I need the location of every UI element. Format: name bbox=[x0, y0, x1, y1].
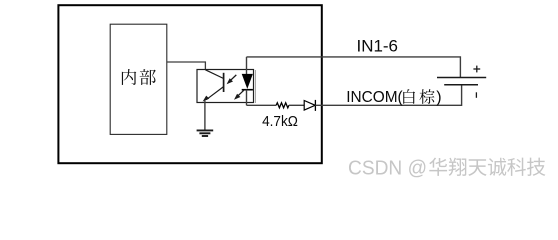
internal block box (内部) bbox=[110, 24, 167, 134]
battery + sign bbox=[473, 66, 480, 73]
resistor R 4.7kΩ bbox=[276, 103, 289, 108]
battery BT1: bottom (-) plate bbox=[444, 84, 478, 86]
wire: LED cathode to resistor R bbox=[247, 104, 277, 106]
LED of U1: anode wire from IN1-6 line bbox=[246, 57, 248, 74]
phototransistor of U1: emitter lead with arrow bbox=[203, 87, 224, 102]
watermark CSDN @华翔天诚科技 bbox=[348, 157, 545, 179]
ground bbox=[197, 130, 214, 136]
LED of U1: triangle (pointing down) bbox=[242, 74, 253, 89]
phototransistor of U1: collector lead bbox=[205, 70, 223, 79]
wire INCOM: diode to battery - bbox=[315, 85, 461, 105]
wire: emitter to ground bbox=[204, 101, 206, 131]
outer enclosure box bbox=[58, 5, 321, 163]
phototransistor of U1: base bar bbox=[223, 73, 225, 92]
battery - mark bbox=[475, 92, 477, 98]
optocoupler U1 body box bbox=[197, 70, 254, 103]
svg-text:IN1-6: IN1-6 bbox=[357, 37, 399, 55]
wire: internal box to optocoupler collector bbox=[167, 62, 205, 70]
battery BT1: top (+) plate bbox=[437, 77, 486, 79]
svg-text:INCOM(: INCOM( bbox=[346, 89, 403, 106]
LED of U1: cathode wire down to INCOM line bbox=[246, 90, 248, 106]
label 内部 (internal) bbox=[122, 69, 156, 85]
svg-text:CSDN @: CSDN @ bbox=[348, 157, 427, 179]
wire: resistor to diode bbox=[289, 104, 304, 106]
light arrow 2 (LED to transistor) bbox=[234, 90, 244, 99]
label INCOM(白棕) bbox=[346, 89, 441, 106]
light arrow 1 (LED to transistor) bbox=[227, 75, 237, 84]
svg-text:4.7kΩ: 4.7kΩ bbox=[262, 114, 298, 130]
diode D bbox=[304, 100, 315, 111]
wire IN1-6: LED anode to battery + bbox=[247, 57, 461, 77]
optocoupler U1 right edge shadow line bbox=[254, 70, 256, 103]
LED of U1: cathode bar bbox=[242, 89, 253, 91]
svg-text:): ) bbox=[436, 89, 441, 106]
